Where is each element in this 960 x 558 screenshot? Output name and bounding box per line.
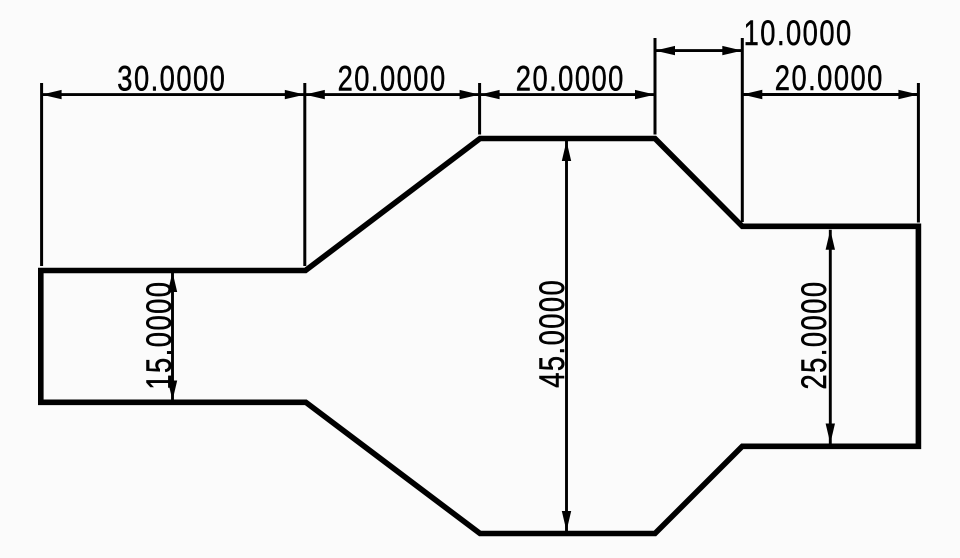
svg-text:15.0000: 15.0000 bbox=[140, 281, 179, 390]
svg-text:20.0000: 20.0000 bbox=[516, 59, 625, 98]
svg-text:30.0000: 30.0000 bbox=[117, 59, 226, 98]
svg-text:25.0000: 25.0000 bbox=[795, 280, 834, 389]
svg-text:20.0000: 20.0000 bbox=[775, 59, 884, 98]
svg-text:45.0000: 45.0000 bbox=[533, 279, 572, 388]
svg-text:10.0000: 10.0000 bbox=[744, 14, 853, 53]
svg-text:20.0000: 20.0000 bbox=[338, 59, 447, 98]
